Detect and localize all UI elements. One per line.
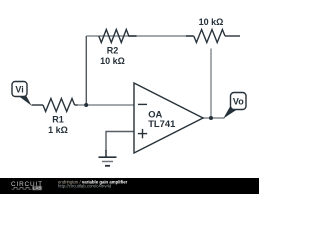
wire R1 output to op-amp inverting input bbox=[77, 104, 134, 106]
op-amp OA TL741 bbox=[134, 83, 203, 153]
logo LAB box bbox=[32, 186, 42, 191]
wire potentiometer wiper vertical bbox=[210, 49, 212, 119]
wire op-amp non-inverting input to ground bbox=[106, 132, 134, 152]
svg-text:LAB: LAB bbox=[33, 186, 42, 191]
svg-text:1 kΩ: 1 kΩ bbox=[48, 125, 68, 135]
pin non-inverting input marker bbox=[138, 133, 147, 135]
wire feedback left vertical bbox=[85, 36, 87, 105]
svg-text:R1: R1 bbox=[52, 115, 64, 125]
svg-text:R2: R2 bbox=[107, 46, 119, 56]
wire op-amp output to Vo bbox=[203, 117, 225, 119]
svg-text:10 kΩ: 10 kΩ bbox=[199, 17, 224, 27]
node output junction bbox=[209, 116, 213, 120]
svg-text:TL741: TL741 bbox=[148, 118, 175, 129]
node junction R1/R2/op-amp input bbox=[84, 103, 88, 107]
footer banner bbox=[0, 178, 259, 194]
pin inverting input marker bbox=[138, 103, 147, 105]
flag Vi bbox=[12, 82, 32, 106]
wire top feedback horizontal bbox=[86, 35, 193, 37]
potentiometer 10 k ohm bbox=[186, 30, 240, 43]
flag Vo bbox=[223, 93, 246, 119]
svg-text:Vi: Vi bbox=[15, 85, 23, 95]
ground bbox=[99, 150, 117, 166]
resistor R1 bbox=[32, 99, 78, 112]
svg-text:10 kΩ: 10 kΩ bbox=[100, 56, 125, 66]
svg-text:http://circuitlab.com/c4mv4d: http://circuitlab.com/c4mv4d bbox=[58, 183, 112, 188]
logo wave bbox=[12, 188, 32, 190]
svg-text:Vo: Vo bbox=[233, 96, 244, 106]
resistor R2 bbox=[99, 30, 137, 43]
